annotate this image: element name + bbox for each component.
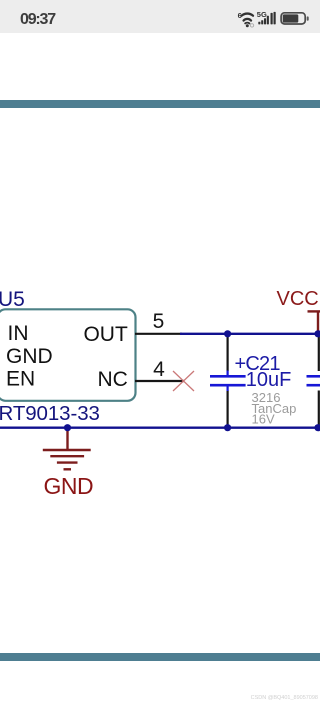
regulator U5 reference designator — [0, 288, 25, 311]
svg-text:OUT: OUT — [83, 323, 128, 346]
ground symbol — [43, 428, 91, 470]
pin name GND — [6, 345, 53, 368]
capacitor C22 plates (right edge) — [307, 376, 320, 385]
pin 5 stub — [135, 333, 182, 335]
watermark — [0, 695, 318, 701]
wifi icon — [242, 14, 253, 28]
pin name EN — [6, 367, 35, 390]
net label VCC — [277, 288, 319, 310]
ground rail wire — [0, 427, 318, 429]
status bar icons SVG — [0, 0, 320, 33]
svg-text:EN: EN — [6, 367, 35, 390]
pin name NC — [97, 368, 127, 391]
battery icon — [281, 13, 309, 24]
junction dots — [64, 330, 320, 431]
wifi settings gear — [250, 24, 253, 27]
no-connect X on pin 4 — [173, 371, 194, 391]
power VCC symbol bar — [308, 311, 320, 332]
C21 rating 16V — [252, 411, 275, 426]
svg-text:RT9013-33: RT9013-33 — [0, 402, 100, 425]
net label GND — [44, 473, 94, 499]
C21 type TanCap — [252, 401, 297, 416]
pin name IN — [8, 322, 29, 345]
capacitor C21 plates — [210, 371, 246, 392]
svg-text:5: 5 — [153, 310, 165, 333]
wire OUT to VCC rail — [180, 333, 318, 335]
capacitor C21 pins — [227, 334, 229, 428]
svg-text:10uF: 10uF — [246, 369, 292, 391]
pin number 4 — [153, 358, 165, 381]
svg-text:IN: IN — [8, 322, 29, 345]
svg-text:GND: GND — [6, 345, 53, 368]
capacitor C21 value 10uF — [246, 369, 292, 391]
capacitor C21 designator — [235, 353, 281, 375]
svg-text:U5: U5 — [0, 288, 25, 311]
svg-text:GND: GND — [44, 473, 94, 499]
pin number 5 — [153, 310, 165, 333]
svg-text:4: 4 — [153, 358, 165, 381]
regulator U5 body — [0, 309, 136, 401]
value label RT9013-33 — [0, 402, 100, 425]
C21 package 3216 — [252, 390, 281, 405]
svg-text:16V: 16V — [252, 411, 275, 426]
capacitor C22 pins (right edge) — [318, 335, 320, 428]
signal bars — [258, 12, 275, 25]
svg-text:VCC: VCC — [277, 288, 319, 310]
top teal divider band — [0, 100, 320, 108]
status bar clock — [20, 11, 55, 29]
bottom teal divider band — [0, 653, 320, 661]
pin 4 stub — [135, 380, 185, 382]
svg-text:NC: NC — [97, 368, 127, 391]
pin name OUT — [83, 323, 128, 346]
status bar background — [0, 0, 320, 33]
